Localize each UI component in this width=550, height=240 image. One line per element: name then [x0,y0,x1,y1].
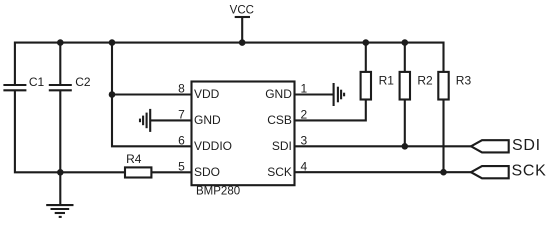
junction: VDD pin 8 tap [109,91,116,98]
svg-text:4: 4 [301,159,308,173]
svg-text:SDO: SDO [194,165,220,179]
wire: C2 bottom lead [59,90,61,172]
wire: VDD branch vertical down to VDDIO pin 6 [112,43,192,147]
junction: R3 at SCK net [440,169,447,176]
svg-text:SCK: SCK [512,163,547,180]
capacitor C2 [49,85,72,90]
junction: R2 at VCC rail [402,39,409,46]
svg-text:5: 5 [178,159,185,173]
svg-text:VCC: VCC [230,4,254,16]
wire: pin 2 CSB to R1 bottom lead [295,100,366,121]
svg-text:VDD: VDD [194,87,220,101]
capacitor C1 [3,85,26,90]
svg-text:6: 6 [178,133,185,147]
svg-text:C2: C2 [75,75,91,89]
junction: C2 at VCC rail [57,39,64,46]
svg-text:R4: R4 [126,152,142,166]
resistor R1 [361,72,371,100]
svg-text:GND: GND [265,87,292,101]
ground symbol (pin 7) [140,109,150,132]
svg-text:R3: R3 [456,73,472,87]
svg-text:SCK: SCK [267,165,292,179]
wire: R2 top lead [404,43,406,72]
svg-text:VDDIO: VDDIO [194,139,232,153]
svg-text:1: 1 [301,82,308,96]
connector SCK [471,166,509,178]
wire: C1 bottom lead and ground rail to R4 [15,90,125,172]
resistor R2 [400,72,410,100]
wire: pin 3 SDI net [295,145,472,147]
ground symbol (bottom) [46,172,73,217]
wire: R2 bottom lead to SDI net [404,100,406,147]
svg-text:R2: R2 [417,73,433,87]
svg-text:SDI: SDI [272,139,292,153]
junction: R2 at SDI net [402,143,409,150]
wire: pin 7 GND to ground [150,119,191,121]
svg-text:CSB: CSB [267,113,292,127]
svg-text:SDI: SDI [512,137,541,154]
svg-text:C1: C1 [29,75,45,89]
svg-text:2: 2 [301,108,308,122]
power symbol VCC [235,17,250,43]
svg-text:R1: R1 [379,73,395,87]
wire: pin 4 SCK net [295,171,472,173]
wire: R3 bottom lead to SCK net [442,100,444,173]
resistor R4 [125,167,151,177]
resistor R3 [438,72,448,100]
wire: pin 8 VDD [112,93,192,95]
wire: C2 top lead [59,43,61,85]
wire: R4 to SDO pin 5 [151,171,191,173]
IC U1 BMP280 [192,82,295,186]
svg-text:3: 3 [301,133,308,147]
svg-text:7: 7 [178,108,185,122]
junction: R1 at VCC rail [363,39,370,46]
ground symbol (pin 1) [334,83,345,106]
junction: C2/ground rail [57,169,64,176]
svg-text:8: 8 [178,82,185,96]
wire: pin 1 GND to ground [295,93,334,95]
svg-text:GND: GND [194,113,221,127]
wire: VCC top rail with left drop to C1 and right drop to R3 [15,43,444,85]
wire: R1 top lead [365,43,367,72]
connector SDI [471,140,509,152]
junction: VDD branch at VCC rail [109,39,116,46]
svg-text:BMP280: BMP280 [196,186,240,198]
junction: VCC stem at rail [239,39,246,46]
